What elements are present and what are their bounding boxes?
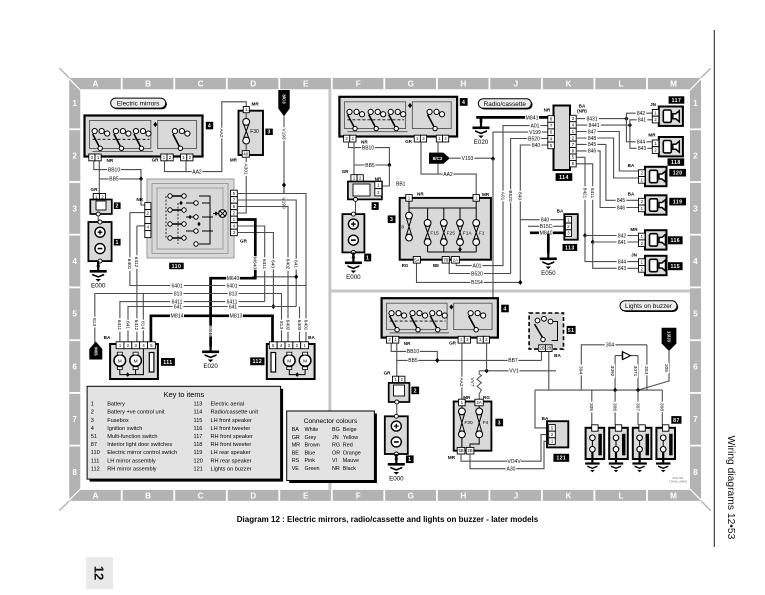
- svg-text:V193: V193: [280, 128, 286, 140]
- svg-text:GR: GR: [384, 371, 392, 376]
- wire stub NR pin 2: [130, 212, 145, 214]
- svg-text:840: 840: [517, 192, 523, 200]
- svg-text:MR: MR: [482, 192, 490, 197]
- Lights on buzzer title oval: [621, 302, 678, 312]
- fusebox bottom pins: [413, 257, 420, 264]
- fan labels: [262, 257, 267, 271]
- section divider horizontal: [331, 290, 690, 293]
- tag 1 (radio): [364, 254, 371, 262]
- svg-text:4: 4: [503, 306, 506, 312]
- svg-text:Key to items: Key to items: [164, 390, 205, 399]
- tag 4 (lights): [501, 305, 509, 313]
- svg-text:Battery +ve control unit: Battery +ve control unit: [107, 410, 165, 416]
- thick M814: [151, 316, 211, 342]
- fuses F15 F25 F1A F1: [427, 208, 429, 220]
- svg-text:AA2: AA2: [458, 377, 464, 386]
- svg-text:Ignition switch: Ignition switch: [107, 426, 142, 432]
- page number 12 box: [86, 557, 113, 589]
- svg-text:BB10: BB10: [362, 145, 374, 151]
- ignition switch item 4 (radio): [339, 97, 457, 137]
- thick M813: [211, 316, 273, 342]
- junction 8411: [591, 239, 595, 244]
- svg-text:846: 846: [588, 149, 597, 155]
- svg-text:BA: BA: [308, 335, 315, 340]
- svg-text:BE: BE: [292, 450, 300, 456]
- wire 842 to speaker 117: [626, 113, 654, 118]
- tag 112: [250, 357, 264, 365]
- svg-text:LH front tweeter: LH front tweeter: [211, 426, 251, 432]
- svg-text:GR: GR: [405, 139, 413, 144]
- svg-text:3: 3: [72, 204, 77, 213]
- svg-text:2B: 2B: [539, 346, 544, 351]
- svg-text:RG: RG: [332, 443, 340, 449]
- wire from 51 right pin down to 304: [548, 352, 550, 391]
- battery +ve control unit item 2 (radio): [348, 182, 382, 200]
- svg-text:VV1: VV1: [509, 369, 519, 375]
- svg-text:M813: M813: [230, 314, 243, 320]
- svg-text:AA2: AA2: [192, 169, 202, 175]
- svg-text:V190: V190: [280, 197, 286, 209]
- svg-text:B15C: B15C: [540, 224, 553, 230]
- wire 8421 from 114 pin 5: [576, 157, 585, 235]
- svg-text:M: M: [670, 80, 677, 89]
- svg-text:GR: GR: [152, 158, 160, 163]
- interior light door switches 87: [671, 416, 681, 424]
- svg-text:LH front speaker: LH front speaker: [211, 418, 252, 424]
- svg-text:6411: 6411: [261, 259, 267, 270]
- svg-text:Brown: Brown: [305, 443, 320, 449]
- lights fusebox item 3: [454, 402, 492, 451]
- wire VV1: [479, 370, 556, 372]
- wire 641 spur: [252, 276, 296, 278]
- 110 interior lamp: [219, 210, 227, 218]
- svg-text:Green: Green: [305, 466, 320, 472]
- wire item2 to battery: [97, 216, 99, 222]
- svg-text:M840: M840: [540, 231, 553, 237]
- fuses F30 F4 (lights): [461, 406, 463, 408]
- 110 internals: [168, 194, 172, 198]
- battery item 1 (radio): [342, 214, 364, 252]
- svg-text:BB10: BB10: [108, 167, 120, 173]
- svg-text:115: 115: [194, 418, 203, 424]
- junction 8421: [583, 233, 587, 238]
- svg-text:111: 111: [91, 458, 100, 464]
- svg-text:5B: 5B: [458, 448, 463, 453]
- svg-text:GR: GR: [240, 239, 248, 244]
- svg-text:813: 813: [174, 291, 183, 297]
- svg-text:BB1: BB1: [396, 181, 406, 187]
- svg-text:BB10: BB10: [407, 349, 419, 355]
- svg-text:K: K: [565, 491, 571, 500]
- svg-text:6: 6: [72, 362, 77, 371]
- wire 6412 from 110 pin 4 to LH mirror pin 3: [136, 226, 138, 342]
- svg-text:3: 3: [498, 420, 501, 426]
- battery item 1 (lights): [385, 416, 408, 454]
- svg-text:8421: 8421: [581, 188, 587, 199]
- svg-text:Diagram 12 : Electric mirrors,: Diagram 12 : Electric mirrors, radio/cas…: [237, 515, 539, 524]
- svg-text:OR: OR: [332, 450, 340, 456]
- wire AA2 (lights): [461, 342, 463, 399]
- svg-text:2: 2: [91, 410, 94, 416]
- svg-text:120: 120: [194, 458, 203, 464]
- connector 2|1 NR (radio switch): [344, 135, 350, 142]
- wire V193: [450, 157, 493, 159]
- thick wire M840 with ground E050: [530, 231, 564, 234]
- bus 813: [95, 294, 282, 346]
- branch 840 to aerial 113: [520, 219, 563, 221]
- svg-text:Electric aerial: Electric aerial: [211, 402, 245, 408]
- svg-text:813: 813: [91, 318, 97, 326]
- svg-text:Pink: Pink: [305, 458, 316, 464]
- RH mirror assembly 112: [267, 344, 315, 379]
- svg-text:3: 3: [267, 130, 270, 136]
- svg-text:641: 641: [229, 304, 238, 310]
- svg-text:B: B: [145, 80, 151, 89]
- svg-text:641: 641: [292, 260, 298, 268]
- svg-text:4: 4: [208, 123, 211, 129]
- svg-text:117: 117: [194, 434, 203, 440]
- svg-text:2B: 2B: [546, 346, 551, 351]
- svg-text:RH rear speaker: RH rear speaker: [211, 458, 252, 464]
- wire V193/V190 down to switch 110: [283, 116, 285, 193]
- tag 51: [567, 326, 576, 334]
- svg-text:2: 2: [374, 204, 377, 210]
- svg-text:840: 840: [541, 218, 550, 224]
- wire B15C: [528, 225, 564, 227]
- LH mirror assembly 111: [110, 344, 158, 379]
- svg-text:E050: E050: [541, 270, 556, 277]
- wire 848 to speaker 120: [576, 138, 638, 178]
- svg-text:2B: 2B: [467, 448, 472, 453]
- tag 2 (mirrors): [114, 202, 121, 209]
- svg-text:13/J3: 13/J3: [666, 331, 671, 343]
- svg-text:3071: 3071: [632, 366, 638, 377]
- svg-text:1: 1: [408, 457, 411, 463]
- battery +ve control unit item 2 (mirrors): [90, 200, 112, 215]
- svg-text:2A: 2A: [453, 257, 458, 262]
- svg-text:6401: 6401: [171, 283, 182, 289]
- svg-text:AA2: AA2: [218, 128, 224, 137]
- svg-text:6: 6: [693, 362, 698, 371]
- tag 111: [161, 358, 175, 366]
- svg-text:119: 119: [673, 199, 683, 205]
- svg-text:8: 8: [72, 468, 77, 477]
- svg-text:51: 51: [568, 328, 575, 334]
- wire 842 to speaker 116: [585, 235, 639, 237]
- svg-text:Radio/cassette: Radio/cassette: [484, 101, 527, 108]
- tag 2 (radio): [372, 202, 379, 210]
- svg-text:6402: 6402: [284, 320, 290, 331]
- door switch 2: [609, 428, 628, 459]
- svg-text:PUG 021: PUG 021: [673, 476, 684, 480]
- tag 1 (lights): [406, 455, 414, 463]
- junction 8431: [624, 116, 628, 121]
- svg-text:A: A: [93, 80, 99, 89]
- fuse F8: [408, 201, 410, 212]
- svg-text:H: H: [460, 491, 466, 500]
- aerial connector 113: [564, 214, 578, 240]
- svg-text:111: 111: [163, 360, 172, 366]
- 51 bottom pins: [539, 345, 546, 352]
- svg-text:H: H: [460, 80, 466, 89]
- connector 2|1 NR on switch: [89, 154, 95, 161]
- svg-text:8431: 8431: [586, 116, 597, 122]
- ground E000 (radio): [352, 252, 354, 257]
- svg-text:112: 112: [253, 359, 263, 365]
- fuse F30 item 3 (mirrors): [239, 111, 264, 155]
- svg-text:6412: 6412: [133, 320, 139, 331]
- svg-text:6401: 6401: [126, 259, 132, 270]
- svg-text:51: 51: [91, 434, 97, 440]
- wire AA2 (radio): [421, 142, 476, 198]
- sidebar rule: [713, 30, 715, 547]
- junction 641: [294, 274, 298, 279]
- svg-text:BB5: BB5: [408, 358, 418, 364]
- svg-text:NR: NR: [404, 341, 411, 346]
- svg-text:813: 813: [278, 321, 284, 329]
- svg-text:Electric mirrors: Electric mirrors: [117, 100, 160, 107]
- svg-text:1: 1: [366, 255, 369, 261]
- svg-text:NR: NR: [107, 158, 114, 163]
- svg-text:119: 119: [194, 450, 203, 456]
- svg-text:846: 846: [617, 205, 626, 211]
- svg-text:VV7: VV7: [469, 377, 475, 386]
- tag 3 (radio fusebox): [388, 215, 396, 223]
- svg-text:2: 2: [414, 388, 417, 394]
- svg-text:MR: MR: [448, 455, 456, 460]
- svg-text:M841: M841: [526, 115, 539, 121]
- svg-text:(NR): (NR): [577, 109, 587, 114]
- svg-text:Red: Red: [343, 443, 353, 449]
- svg-text:Orange: Orange: [343, 450, 361, 456]
- svg-text:RG: RG: [483, 395, 490, 400]
- svg-text:12: 12: [92, 566, 107, 580]
- wire BB10 (radio): [349, 142, 390, 165]
- svg-text:87: 87: [673, 418, 680, 424]
- svg-text:120: 120: [673, 171, 683, 177]
- wire 814 to LH mirror pin 4: [142, 294, 144, 343]
- svg-text:Beige: Beige: [343, 427, 357, 433]
- ignition switch item 4 (mirrors): [85, 116, 203, 157]
- wire 844 to speaker 115: [585, 236, 639, 262]
- svg-text:Interior light door switches: Interior light door switches: [107, 442, 172, 448]
- wire 305 from arrow: [638, 351, 669, 390]
- svg-text:C: C: [198, 80, 204, 89]
- wire 8441 from 114 pin 4: [576, 124, 630, 126]
- tag 3 (lights): [495, 419, 503, 427]
- svg-text:BA: BA: [292, 427, 300, 433]
- svg-text:305: 305: [588, 403, 594, 411]
- diode: [615, 355, 638, 357]
- svg-text:3: 3: [693, 204, 698, 213]
- svg-text:M814: M814: [171, 314, 184, 320]
- svg-text:308: 308: [659, 403, 665, 411]
- svg-text:8441: 8441: [588, 123, 599, 129]
- svg-text:L: L: [618, 80, 623, 89]
- svg-text:6412: 6412: [133, 257, 139, 268]
- tag 115: [668, 262, 683, 270]
- svg-text:BA: BA: [628, 191, 635, 196]
- svg-text:641: 641: [124, 321, 130, 329]
- svg-text:E020: E020: [203, 363, 218, 370]
- svg-text:306: 306: [611, 403, 617, 411]
- wire 6400 to RH mirror pin 2: [299, 307, 301, 343]
- wire 843 to speaker 118: [630, 125, 655, 148]
- svg-text:G: G: [408, 80, 414, 89]
- tag 4: [206, 122, 213, 130]
- junction 8441: [628, 123, 632, 128]
- border frame: top band: [69, 78, 701, 89]
- svg-text:305: 305: [663, 364, 669, 372]
- 110 right pin column: [231, 190, 238, 197]
- tag 116: [668, 236, 683, 244]
- svg-text:NR: NR: [375, 176, 382, 181]
- svg-text:M6B: M6B: [207, 326, 213, 336]
- svg-text:114: 114: [559, 175, 569, 181]
- svg-text:B: B: [145, 491, 151, 500]
- svg-text:641: 641: [174, 304, 183, 310]
- svg-text:8: 8: [693, 468, 698, 477]
- svg-text:A301: A301: [242, 163, 248, 175]
- wire B520: [449, 139, 550, 274]
- svg-text:RG: RG: [402, 263, 409, 268]
- door switch 3: [633, 428, 652, 459]
- svg-text:Fusebox: Fusebox: [107, 418, 129, 424]
- svg-text:RS: RS: [292, 458, 300, 464]
- svg-text:Wiring diagrams 12•53: Wiring diagrams 12•53: [725, 436, 736, 540]
- svg-text:F1A: F1A: [463, 230, 473, 236]
- svg-text:M05: M05: [93, 347, 98, 356]
- wire 6401 from 110 pin 5 to RH mirror: [237, 194, 306, 343]
- tag 110: [169, 263, 184, 270]
- tag 120: [669, 169, 686, 177]
- svg-text:3: 3: [390, 217, 393, 223]
- ground E020 (mirrors): [210, 347, 212, 351]
- svg-text:841: 841: [638, 118, 647, 124]
- wire 6411 from 110 pin 4: [237, 226, 265, 302]
- svg-text:F4: F4: [483, 420, 489, 426]
- svg-text:304: 304: [643, 366, 649, 374]
- svg-text:E000: E000: [91, 283, 106, 290]
- svg-text:C: C: [198, 491, 204, 500]
- svg-text:8411: 8411: [589, 188, 595, 199]
- svg-text:6411: 6411: [116, 320, 122, 331]
- svg-text:RH mirror assembly: RH mirror assembly: [107, 466, 157, 472]
- svg-text:NR: NR: [544, 108, 551, 113]
- wire 840: [520, 145, 550, 282]
- wire BB5 / BB7 (lights): [396, 343, 398, 376]
- wire BB5 (mirrors): [98, 161, 100, 194]
- ground E000 (mirrors): [97, 261, 99, 266]
- wire 846 to speaker 119: [576, 151, 638, 208]
- border frame: right band: [690, 80, 701, 500]
- tag 119: [669, 198, 686, 206]
- svg-text:GR: GR: [292, 435, 300, 441]
- wire 841 to speaker 117: [630, 120, 655, 125]
- svg-text:814: 814: [140, 321, 146, 329]
- svg-text:5: 5: [72, 310, 77, 319]
- svg-text:M: M: [134, 359, 138, 365]
- radio fusebox item 3: [400, 198, 491, 260]
- svg-text:NR: NR: [136, 197, 143, 202]
- svg-text:E020: E020: [474, 139, 489, 146]
- svg-text:3: 3: [91, 418, 94, 424]
- wire A30: [470, 441, 549, 468]
- svg-text:844: 844: [618, 259, 627, 265]
- svg-text:1: 1: [72, 99, 77, 108]
- svg-text:7: 7: [693, 415, 698, 424]
- svg-text:D: D: [250, 80, 256, 89]
- arrow M05: [89, 342, 102, 360]
- tag 3 (mirrors fuse): [265, 129, 272, 135]
- svg-text:E000: E000: [346, 274, 361, 281]
- svg-text:1: 1: [693, 99, 698, 108]
- svg-text:K: K: [565, 80, 571, 89]
- wire A301: [237, 157, 246, 213]
- wire 845 to speaker 119: [576, 144, 638, 200]
- svg-text:845: 845: [617, 198, 626, 204]
- border frame: bottom band: [69, 490, 701, 501]
- svg-text:4: 4: [91, 426, 94, 432]
- svg-text:2: 2: [116, 204, 119, 210]
- svg-text:813: 813: [229, 291, 238, 297]
- svg-text:A30: A30: [507, 467, 516, 473]
- svg-text:116: 116: [194, 426, 203, 432]
- svg-text:F8: F8: [398, 224, 404, 230]
- svg-text:BA: BA: [628, 163, 635, 168]
- svg-text:Connector colours: Connector colours: [304, 418, 358, 425]
- svg-text:BB5: BB5: [109, 177, 119, 183]
- wire down to 121: [535, 390, 549, 428]
- svg-text:M: M: [118, 359, 122, 365]
- svg-text:Lights on buzzer: Lights on buzzer: [625, 303, 673, 310]
- svg-text:LH mirror assembly: LH mirror assembly: [107, 458, 156, 464]
- svg-text:118: 118: [194, 442, 203, 448]
- battery item 1 (mirrors): [88, 222, 111, 261]
- svg-text:A: A: [93, 491, 99, 500]
- tag 1 (mirrors): [114, 239, 121, 246]
- svg-text:6400: 6400: [296, 320, 302, 331]
- svg-text:847: 847: [588, 129, 597, 135]
- svg-text:BA: BA: [104, 335, 111, 340]
- svg-text:J: J: [514, 491, 519, 500]
- Connector colours box: [289, 414, 377, 484]
- svg-text:7: 7: [72, 415, 77, 424]
- svg-text:M: M: [303, 359, 307, 365]
- svg-text:VO4V: VO4V: [507, 459, 521, 465]
- wire 843 to speaker 115: [593, 242, 639, 268]
- wire AA2 (mirrors): [165, 102, 247, 172]
- svg-text:87: 87: [91, 442, 97, 448]
- svg-text:845: 845: [588, 142, 597, 148]
- svg-text:JN: JN: [650, 102, 657, 107]
- svg-text:M: M: [287, 359, 291, 365]
- svg-text:AA2: AA2: [443, 172, 453, 178]
- svg-text:BG: BG: [332, 427, 340, 433]
- svg-text:B520: B520: [471, 271, 483, 277]
- svg-text:6401: 6401: [302, 320, 308, 331]
- wire VO4V: [461, 435, 549, 462]
- svg-text:Radio/cassette unit: Radio/cassette unit: [211, 410, 259, 416]
- svg-text:840: 840: [532, 143, 541, 149]
- tag 113: [563, 244, 578, 251]
- corner diagonal ticks: [60, 68, 711, 510]
- junction BB5/BB10: [139, 176, 143, 181]
- svg-text:MR: MR: [630, 227, 638, 232]
- svg-text:T.64 ALL MAKE: T.64 ALL MAKE: [669, 480, 687, 484]
- bus 6401: [130, 213, 306, 286]
- svg-text:RH front tweeter: RH front tweeter: [211, 442, 252, 448]
